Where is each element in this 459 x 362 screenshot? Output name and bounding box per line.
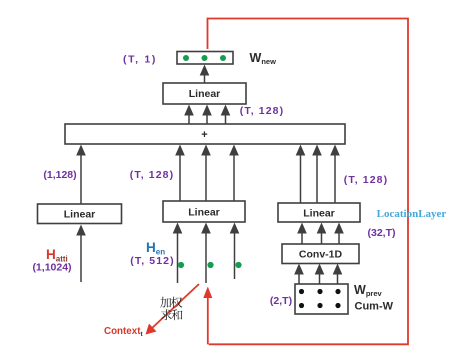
svg-text:(T, 128): (T, 128)	[130, 169, 174, 181]
wire: arrow from H_atti up into left Linear	[76, 225, 86, 283]
svg-text:(T, 1): (T, 1)	[123, 54, 157, 66]
svg-text:Linear: Linear	[188, 207, 220, 219]
wires: three arrows from center Linear up to + box	[175, 145, 185, 202]
svg-text:Linear: Linear	[303, 208, 335, 220]
wires: three arrows from Conv-1D up to right Linear	[297, 223, 307, 245]
svg-text:Contextt: Contextt	[104, 326, 143, 338]
red diagonal arrow to Context	[146, 284, 200, 335]
svg-text:(1,128): (1,128)	[43, 169, 76, 181]
center Linear box	[163, 201, 245, 222]
left Linear box	[38, 204, 122, 224]
label 加权 (weighted)	[160, 297, 171, 308]
wires: three arrows from weights matrix up to Conv-1D	[294, 264, 304, 285]
svg-text:Wnew: Wnew	[250, 51, 277, 66]
svg-text:(T, 128): (T, 128)	[344, 174, 388, 186]
svg-text:Linear: Linear	[64, 209, 96, 221]
wires: three arrows from right Linear up to + box	[296, 145, 306, 204]
wires: three arrows from encoder (green dots) up to center Linear	[173, 223, 184, 284]
svg-text:Cum-W: Cum-W	[355, 301, 394, 313]
wires: three arrows from + box up to top Linear	[184, 105, 194, 125]
svg-text:(T, 128): (T, 128)	[240, 105, 284, 117]
svg-text:Linear: Linear	[189, 88, 221, 100]
svg-text:(1,1024): (1,1024)	[32, 262, 71, 274]
top Linear box	[163, 83, 246, 104]
svg-text:(32,T): (32,T)	[367, 227, 395, 239]
svg-text:Wprev: Wprev	[354, 283, 382, 298]
svg-text:Hen: Hen	[146, 240, 165, 257]
wire: arrow from top Linear to alignment vector box	[200, 65, 210, 84]
svg-text:Conv-1D: Conv-1D	[299, 249, 343, 261]
svg-text:+: +	[201, 129, 207, 141]
svg-text:(T, 512): (T, 512)	[130, 255, 174, 267]
plus (add) box	[65, 124, 345, 144]
red feedback arrow up into weighted-sum node	[203, 287, 212, 345]
svg-text:LocationLayer: LocationLayer	[377, 208, 447, 220]
red feedback loop wire (top and right and bottom)	[208, 19, 409, 345]
alignment vector box (T,1) with green dots	[177, 52, 233, 65]
attention weights matrix box with black dots	[295, 284, 348, 314]
label 求和 (sum)	[161, 309, 172, 320]
svg-text:(2,T): (2,T)	[270, 295, 292, 307]
right Linear box	[278, 203, 360, 222]
Conv-1D box	[282, 244, 359, 264]
